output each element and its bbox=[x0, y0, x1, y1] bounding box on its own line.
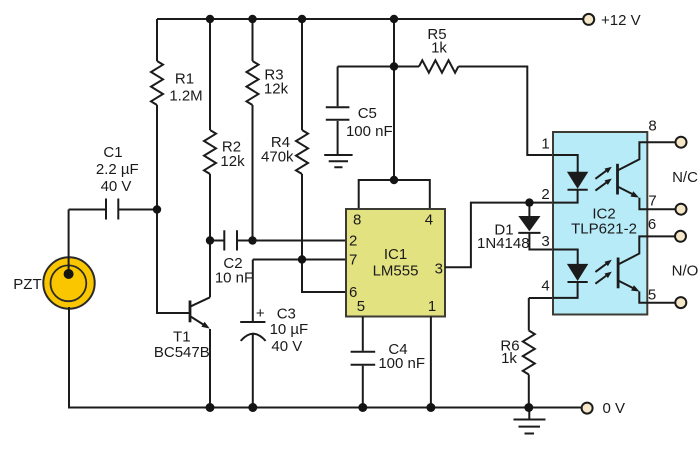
svg-text:+12 V: +12 V bbox=[601, 12, 641, 29]
svg-text:1k: 1k bbox=[431, 40, 447, 57]
svg-text:7: 7 bbox=[648, 193, 656, 210]
svg-text:2.2 µF: 2.2 µF bbox=[96, 161, 139, 178]
svg-text:LM555: LM555 bbox=[373, 263, 419, 280]
svg-text:5: 5 bbox=[357, 298, 365, 315]
svg-text:IC1: IC1 bbox=[384, 246, 407, 263]
svg-text:10 µF: 10 µF bbox=[270, 321, 309, 338]
svg-text:R1: R1 bbox=[175, 71, 194, 88]
svg-text:PZT: PZT bbox=[13, 276, 41, 293]
svg-text:100 nF: 100 nF bbox=[346, 123, 393, 140]
svg-text:N/C: N/C bbox=[672, 169, 698, 186]
svg-text:3: 3 bbox=[541, 233, 549, 250]
svg-text:1N4148: 1N4148 bbox=[477, 235, 530, 252]
svg-text:C1: C1 bbox=[103, 144, 122, 161]
svg-text:6: 6 bbox=[648, 216, 656, 233]
svg-text:4: 4 bbox=[425, 212, 433, 229]
svg-text:40 V: 40 V bbox=[101, 178, 132, 195]
svg-text:5: 5 bbox=[648, 287, 656, 304]
svg-text:100 nF: 100 nF bbox=[378, 355, 425, 372]
svg-text:2: 2 bbox=[349, 233, 357, 250]
svg-text:1.2M: 1.2M bbox=[169, 88, 202, 105]
svg-text:40 V: 40 V bbox=[271, 338, 302, 355]
svg-text:1k: 1k bbox=[501, 350, 517, 367]
svg-text:4: 4 bbox=[541, 278, 549, 295]
svg-text:BC547B: BC547B bbox=[154, 344, 210, 361]
svg-text:8: 8 bbox=[648, 118, 656, 135]
svg-text:8: 8 bbox=[353, 212, 361, 229]
svg-text:7: 7 bbox=[349, 251, 357, 268]
svg-text:1: 1 bbox=[541, 136, 549, 153]
svg-text:+: + bbox=[256, 305, 265, 322]
svg-text:C5: C5 bbox=[358, 105, 377, 122]
svg-text:N/O: N/O bbox=[672, 263, 699, 280]
svg-text:10 nF: 10 nF bbox=[215, 270, 253, 287]
svg-text:2: 2 bbox=[541, 186, 549, 203]
svg-text:0 V: 0 V bbox=[603, 400, 626, 417]
svg-text:TLP621-2: TLP621-2 bbox=[571, 221, 637, 238]
svg-text:3: 3 bbox=[435, 260, 443, 277]
svg-text:470k: 470k bbox=[261, 149, 294, 166]
svg-text:1: 1 bbox=[428, 298, 436, 315]
svg-text:12k: 12k bbox=[220, 153, 245, 170]
svg-text:12k: 12k bbox=[264, 81, 289, 98]
